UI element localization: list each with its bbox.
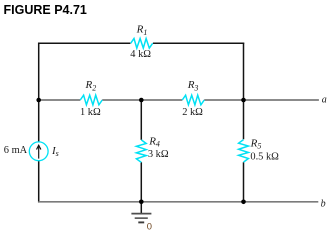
svg-text:1 kΩ: 1 kΩ (80, 107, 101, 118)
svg-text:R4: R4 (148, 135, 160, 148)
svg-text:6 mA: 6 mA (4, 145, 28, 156)
svg-text:a: a (322, 95, 327, 106)
svg-text:b: b (321, 198, 326, 209)
svg-text:R5: R5 (250, 137, 262, 150)
svg-text:3 kΩ: 3 kΩ (148, 149, 169, 160)
svg-text:0: 0 (147, 221, 152, 232)
svg-text:4 kΩ: 4 kΩ (130, 49, 151, 60)
svg-text:0.5 kΩ: 0.5 kΩ (250, 152, 279, 163)
svg-text:Is: Is (51, 145, 59, 158)
svg-text:R2: R2 (85, 79, 97, 92)
svg-text:R1: R1 (136, 24, 148, 37)
svg-text:R3: R3 (187, 79, 199, 92)
svg-text:2 kΩ: 2 kΩ (182, 107, 203, 118)
